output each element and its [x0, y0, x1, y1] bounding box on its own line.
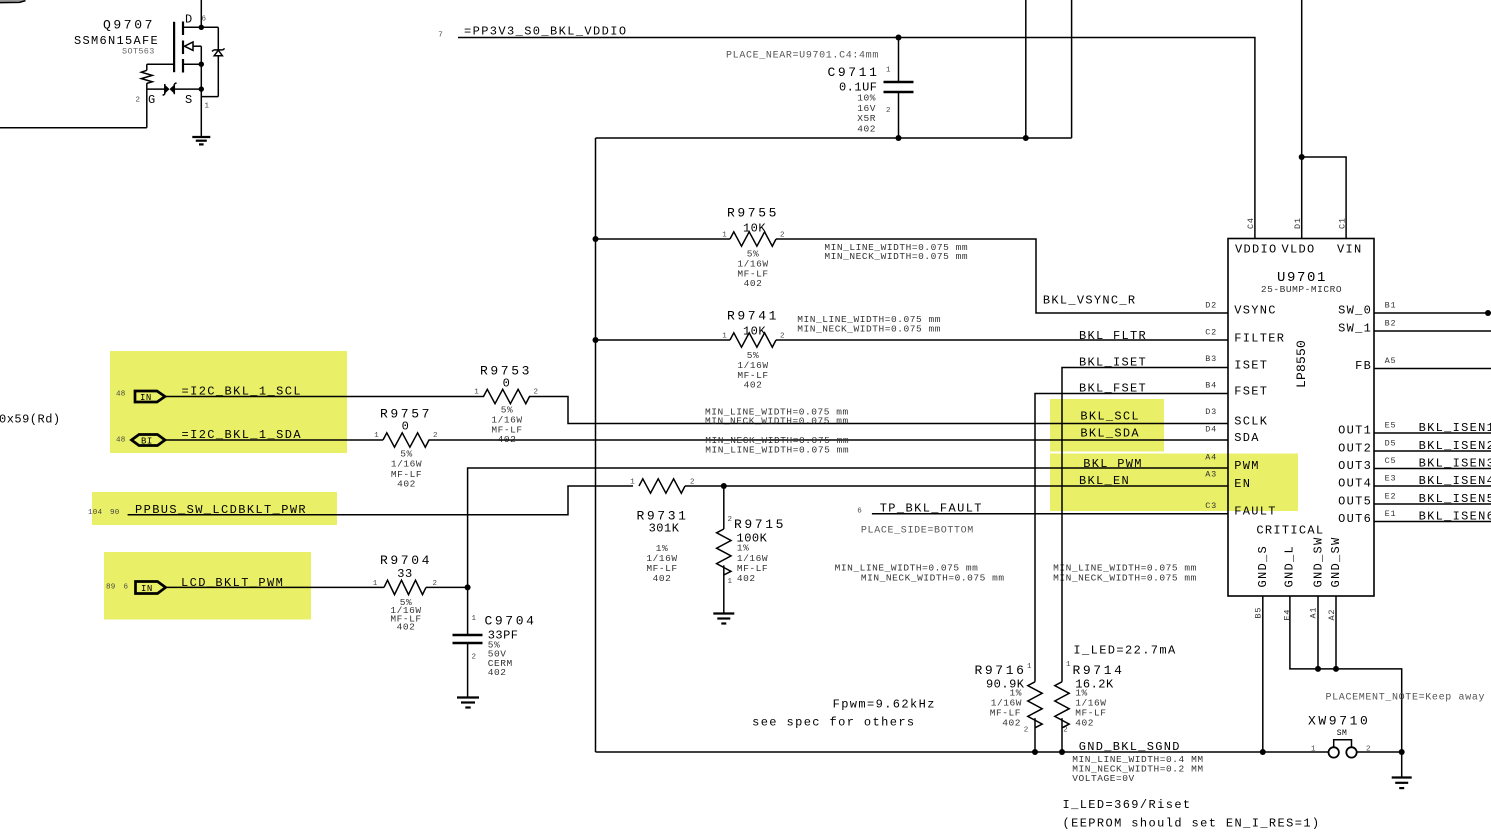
svg-text:C9704: C9704: [485, 614, 537, 629]
ground R9715: [713, 614, 734, 624]
wire chip D1 from top: [1301, 0, 1303, 239]
wire OUT2: [1374, 450, 1491, 452]
svg-text:PWM: PWM: [1234, 459, 1260, 473]
svg-text:A2: A2: [1327, 609, 1337, 621]
wire S down: [200, 89, 202, 137]
wire OUT5: [1374, 503, 1491, 505]
svg-text:BKL_VSYNC_R: BKL_VSYNC_R: [1043, 294, 1137, 308]
svg-text:BKL_SDA: BKL_SDA: [1080, 426, 1140, 440]
ground XW9710: [1392, 778, 1412, 789]
svg-text:MIN_NECK_WIDTH=0.075 mm: MIN_NECK_WIDTH=0.075 mm: [824, 251, 968, 262]
resistor R9704: [373, 553, 438, 632]
svg-text:SOT563: SOT563: [122, 47, 155, 57]
node A2: [1333, 666, 1339, 672]
svg-text:=PP3V3_S0_BKL_VDDIO: =PP3V3_S0_BKL_VDDIO: [464, 25, 627, 39]
svg-text:PLACEMENT_NOTE=Keep away: PLACEMENT_NOTE=Keep away: [1326, 692, 1486, 703]
svg-text:BKL_SCL: BKL_SCL: [1080, 410, 1140, 424]
svg-text:402: 402: [1075, 717, 1094, 728]
wire source to S node: [200, 64, 202, 89]
svg-text:D3: D3: [1205, 407, 1217, 417]
highlight BKL_SCL/BKL_SDA nets: [1050, 399, 1164, 452]
node source tap: [199, 61, 204, 66]
svg-text:402: 402: [744, 380, 763, 391]
svg-text:I_LED=22.7mA: I_LED=22.7mA: [1073, 643, 1176, 657]
wire gate down-left: [0, 89, 147, 128]
capacitor C9711: [726, 38, 913, 139]
wire SCL net: [165, 397, 1228, 424]
svg-text:Fpwm=9.62kHz: Fpwm=9.62kHz: [833, 697, 936, 711]
svg-text:D4: D4: [1205, 425, 1217, 435]
wire FSET net to R9716: [1035, 394, 1228, 682]
net =PP3V3_S0_BKL_VDDIO: [438, 25, 627, 40]
svg-text:FB: FB: [1355, 359, 1372, 373]
svg-text:1/16W: 1/16W: [391, 459, 422, 470]
svg-text:EN: EN: [1234, 477, 1251, 491]
wire drain up: [200, 0, 202, 27]
svg-text:BKL_FLTR: BKL_FLTR: [1079, 329, 1147, 343]
svg-text:33: 33: [397, 567, 412, 581]
svg-text:PLACE_NEAR=U9701.C4:4mm: PLACE_NEAR=U9701.C4:4mm: [726, 51, 879, 62]
svg-text:BKL_ISEN1: BKL_ISEN1: [1419, 421, 1491, 435]
svg-text:FSET: FSET: [1234, 384, 1268, 398]
svg-text:R9704: R9704: [380, 553, 432, 568]
transistor Q9707: [74, 13, 210, 111]
svg-text:GND_L: GND_L: [1283, 545, 1297, 588]
svg-text:0: 0: [402, 420, 410, 434]
svg-text:MIN_NECK_WIDTH=0.075 mm: MIN_NECK_WIDTH=0.075 mm: [1053, 572, 1197, 583]
svg-text:402: 402: [1002, 717, 1021, 728]
wire sgnd rail top: [596, 137, 1072, 139]
svg-text:BKL_EN: BKL_EN: [1079, 474, 1130, 488]
highlight BKL_PWM/BKL_EN nets: [1050, 454, 1298, 512]
svg-text:104: 104: [88, 509, 103, 517]
svg-text:7: 7: [438, 32, 443, 40]
svg-text:C5: C5: [1385, 456, 1397, 466]
svg-text:MIN_NECK_WIDTH=0.075 mm: MIN_NECK_WIDTH=0.075 mm: [705, 416, 849, 427]
svg-text:IN: IN: [140, 393, 152, 403]
port IN =I2C_BKL_1_SCL: [116, 385, 302, 403]
node R9704 / C9704: [465, 584, 471, 590]
ground C9704: [457, 698, 479, 708]
svg-text:SM: SM: [1337, 729, 1348, 738]
svg-text:C3: C3: [1205, 501, 1217, 511]
svg-text:402: 402: [653, 573, 672, 584]
svg-text:OUT6: OUT6: [1338, 512, 1372, 526]
resistor R9731: [630, 479, 695, 585]
svg-text:GND_SW: GND_SW: [1329, 536, 1343, 587]
node R9716 sgnd: [1032, 749, 1038, 755]
svg-text:R9715: R9715: [734, 517, 786, 532]
svg-text:Q9707: Q9707: [103, 18, 155, 33]
svg-text:1: 1: [374, 432, 379, 440]
note MIN widths R9741: [797, 314, 941, 334]
svg-text:402: 402: [488, 667, 507, 678]
svg-text:B3: B3: [1205, 354, 1217, 364]
svg-text:VIN: VIN: [1337, 242, 1363, 256]
svg-text:402: 402: [397, 479, 416, 490]
svg-text:FAULT: FAULT: [1234, 505, 1277, 519]
svg-text:1: 1: [205, 103, 210, 111]
note MIN widths EN left: [835, 562, 1005, 583]
node S: [199, 86, 204, 91]
svg-text:1: 1: [472, 615, 477, 623]
wire PWM net: [166, 468, 1228, 587]
node B5 sgnd: [1260, 749, 1266, 755]
zener gate-source Q9707: [147, 83, 202, 96]
svg-text:2: 2: [433, 580, 438, 588]
wire branch to C1: [1302, 157, 1346, 239]
svg-text:2: 2: [534, 389, 539, 397]
node R9755 tap: [593, 236, 599, 242]
wire chip A2 down: [1335, 596, 1337, 669]
svg-text:BKL_ISEN6: BKL_ISEN6: [1419, 510, 1491, 524]
svg-text:C2: C2: [1205, 328, 1217, 338]
node PP3V3 / C9711: [896, 35, 902, 41]
svg-text:OUT4: OUT4: [1338, 477, 1372, 491]
svg-text:2: 2: [1063, 727, 1068, 735]
svg-text:402: 402: [857, 123, 876, 134]
note MIN widths SCL: [705, 407, 849, 427]
svg-text:B2: B2: [1385, 319, 1397, 329]
wire OUT6: [1374, 521, 1491, 523]
wire SW_0: [1374, 312, 1491, 314]
svg-text:D: D: [185, 13, 193, 27]
svg-text:VLDO: VLDO: [1282, 242, 1316, 256]
svg-text:BKL_ISEN5: BKL_ISEN5: [1419, 492, 1491, 506]
svg-text:B1: B1: [1385, 301, 1397, 311]
svg-text:A3: A3: [1205, 470, 1217, 480]
node sgnd rail: [1023, 135, 1029, 141]
svg-text:GND_SW: GND_SW: [1312, 536, 1326, 587]
svg-text:GND_BKL_SGND: GND_BKL_SGND: [1079, 740, 1181, 754]
svg-text:BKL_ISEN3: BKL_ISEN3: [1419, 457, 1491, 471]
highlight PPBUS_SW_LCDBKLT_PWR label: [92, 492, 337, 525]
svg-text:A5: A5: [1385, 356, 1397, 366]
wire ISET net to R9714: [1062, 368, 1228, 682]
resistor R9714: [1055, 661, 1125, 752]
svg-text:E5: E5: [1385, 421, 1397, 431]
note MIN widths EN right: [1053, 562, 1197, 583]
svg-text:ISET: ISET: [1234, 358, 1268, 372]
svg-text:(EEPROM should set EN_I_RES=1): (EEPROM should set EN_I_RES=1): [1063, 817, 1321, 831]
wire OUT3: [1374, 468, 1491, 470]
node R9741 tap: [593, 337, 599, 343]
wire chip E4 down: [1290, 596, 1402, 752]
svg-text:OUT3: OUT3: [1338, 459, 1372, 473]
wire SW_1: [1374, 330, 1491, 332]
node drain: [199, 25, 204, 30]
note MIN widths SDA: [705, 435, 849, 456]
wire stub up 1: [1025, 0, 1027, 138]
node EN / R9715: [721, 483, 727, 489]
svg-text:R9716: R9716: [974, 663, 1026, 678]
svg-text:see spec for others: see spec for others: [752, 715, 915, 729]
decorative cropped shape top-left: [0, 0, 25, 2]
port PPBUS_SW_LCDBKLT_PWR: [88, 503, 307, 517]
node SW_0 edge: [1485, 310, 1491, 316]
IC U9701 body: [1228, 239, 1374, 597]
svg-text:402: 402: [744, 278, 763, 289]
wire stub up 2: [1071, 0, 1073, 138]
wire PP3V3 rail to chip C4: [458, 38, 1255, 239]
svg-text:C4: C4: [1246, 217, 1256, 229]
svg-text:BKL_ISEN4: BKL_ISEN4: [1419, 474, 1491, 488]
svg-text:LP8550: LP8550: [1294, 340, 1309, 388]
svg-text:1: 1: [886, 67, 891, 75]
testpoint TP_BKL_FAULT: [857, 502, 983, 516]
svg-text:89: 89: [106, 584, 116, 592]
svg-text:B5: B5: [1253, 607, 1263, 619]
wire VSYNC net: [596, 239, 1229, 313]
svg-text:48: 48: [116, 437, 126, 445]
note MIN widths sgnd: [1072, 754, 1203, 784]
svg-text:1: 1: [728, 578, 733, 586]
wire sgnd rail vertical long: [595, 138, 597, 752]
svg-text:E1: E1: [1385, 509, 1397, 519]
svg-text:2: 2: [472, 654, 477, 662]
svg-text:R9714: R9714: [1073, 663, 1125, 678]
node gnd corner: [1399, 749, 1405, 755]
svg-text:10K: 10K: [743, 222, 766, 236]
wire chip A1 down: [1317, 596, 1319, 669]
wire FB: [1374, 368, 1491, 370]
wire FILTER net: [596, 339, 1229, 341]
svg-text:90: 90: [110, 509, 120, 517]
svg-text:A1: A1: [1309, 607, 1319, 619]
svg-text:E2: E2: [1385, 492, 1397, 502]
svg-text:2: 2: [1024, 727, 1029, 735]
svg-text:2: 2: [136, 97, 141, 105]
svg-text:BKL_ISEN2: BKL_ISEN2: [1419, 439, 1491, 453]
wire GND_BKL_SGND: [596, 751, 1329, 753]
svg-text:GND_S: GND_S: [1256, 545, 1270, 588]
node C9711 / gnd rail: [896, 135, 902, 141]
svg-text:1: 1: [630, 479, 635, 487]
wire SDA net: [165, 439, 1228, 441]
port IN LCD_BKLT_PWM: [106, 576, 284, 594]
svg-text:VSYNC: VSYNC: [1234, 303, 1277, 317]
svg-text:C1: C1: [1337, 217, 1347, 229]
svg-text:PLACE_SIDE=BOTTOM: PLACE_SIDE=BOTTOM: [861, 526, 974, 537]
svg-text:OUT2: OUT2: [1338, 442, 1372, 456]
resistor R9741: [722, 309, 785, 391]
ground Q9707: [192, 137, 210, 144]
svg-text:6: 6: [202, 16, 207, 24]
svg-text:R9741: R9741: [727, 309, 779, 324]
wire chip B5 to sgnd: [1262, 596, 1264, 752]
svg-text:OUT5: OUT5: [1338, 495, 1372, 509]
wire OUT4: [1374, 485, 1491, 487]
highlight LCD_BKLT_PWM label: [104, 552, 311, 620]
svg-text:1: 1: [474, 389, 479, 397]
svg-text:VDDIO: VDDIO: [1235, 242, 1278, 256]
svg-text:2: 2: [728, 516, 733, 524]
note MIN widths R9755: [824, 242, 968, 262]
resistor R9753: [474, 364, 538, 446]
svg-text:D2: D2: [1205, 301, 1217, 311]
svg-text:D5: D5: [1385, 439, 1397, 449]
svg-text:CRITICAL: CRITICAL: [1256, 524, 1324, 538]
svg-text:G: G: [148, 93, 156, 107]
svg-text:301K: 301K: [649, 522, 680, 536]
svg-text:1: 1: [1066, 661, 1071, 669]
body diode Q9707: [201, 27, 224, 96]
jumper XW9710: [1308, 714, 1402, 758]
svg-text:VOLTAGE=0V: VOLTAGE=0V: [1072, 773, 1135, 784]
resistor R9757: [374, 407, 438, 490]
svg-text:E3: E3: [1385, 474, 1397, 484]
svg-text:OUT1: OUT1: [1338, 424, 1372, 438]
svg-text:SDA: SDA: [1234, 431, 1260, 445]
svg-text:6: 6: [857, 508, 862, 516]
wire EN net: [685, 485, 1228, 487]
svg-text:402: 402: [737, 573, 756, 584]
svg-text:B4: B4: [1205, 381, 1217, 391]
svg-text:0: 0: [503, 377, 511, 391]
svg-text:25-BUMP-MICRO: 25-BUMP-MICRO: [1261, 284, 1342, 295]
svg-text:SW_1: SW_1: [1338, 321, 1372, 335]
resistor R9755: [722, 206, 785, 290]
resistor R9715: [717, 486, 786, 613]
svg-text:2: 2: [433, 432, 438, 440]
node A1: [1315, 666, 1321, 672]
wire FAULT net: [872, 513, 1228, 515]
svg-text:2: 2: [886, 107, 891, 115]
svg-text:6: 6: [124, 584, 129, 592]
node D1/C1 branch: [1299, 154, 1305, 160]
svg-text:MIN_NECK_WIDTH=0.075 mm: MIN_NECK_WIDTH=0.075 mm: [797, 323, 941, 334]
svg-text:SW_0: SW_0: [1338, 303, 1372, 317]
svg-text:1: 1: [373, 580, 378, 588]
svg-text:E4: E4: [1282, 609, 1292, 621]
svg-text:SCLK: SCLK: [1234, 414, 1268, 428]
svg-text:BKL_PWM: BKL_PWM: [1083, 457, 1143, 471]
resistor R9716: [974, 663, 1042, 752]
svg-text:A4: A4: [1205, 453, 1217, 463]
svg-text:C9711: C9711: [827, 65, 879, 80]
node R9714 sgnd: [1059, 749, 1065, 755]
svg-text:IN: IN: [141, 584, 153, 594]
capacitor C9704: [453, 587, 537, 697]
svg-text:402: 402: [397, 621, 416, 632]
svg-text:FILTER: FILTER: [1234, 331, 1285, 345]
svg-text:XW9710: XW9710: [1308, 714, 1370, 729]
svg-text:MIN_NECK_WIDTH=0.075 mm: MIN_NECK_WIDTH=0.075 mm: [861, 572, 1005, 583]
svg-text:D1: D1: [1293, 217, 1303, 229]
svg-text:R9755: R9755: [727, 206, 779, 221]
wire gnd stub: [1401, 752, 1403, 778]
port BI =I2C_BKL_1_SDA: [116, 428, 302, 446]
highlight =I2C_BKL_1_SCL/SDA labels: [110, 351, 347, 453]
svg-text:1: 1: [1311, 746, 1316, 754]
svg-text:0x59(Rd): 0x59(Rd): [0, 413, 61, 427]
wire PPBUS net to EN: [128, 486, 633, 515]
svg-text:BI: BI: [141, 437, 153, 447]
wire OUT1: [1374, 432, 1491, 434]
svg-text:I_LED=369/Riset: I_LED=369/Riset: [1063, 798, 1192, 812]
svg-text:MIN_LINE_WIDTH=0.075 mm: MIN_LINE_WIDTH=0.075 mm: [705, 445, 849, 456]
svg-text:S: S: [185, 93, 193, 107]
svg-text:48: 48: [116, 391, 126, 399]
svg-text:1: 1: [1027, 663, 1032, 671]
